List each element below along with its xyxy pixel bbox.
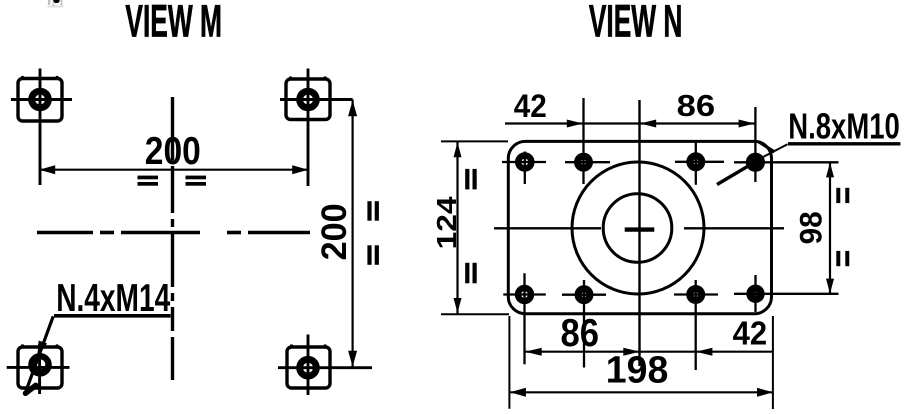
svg-text:98: 98 <box>793 211 829 244</box>
extension lines for 198 <box>509 316 773 409</box>
dimension line 42/86 top (VIEW N) <box>505 120 755 128</box>
dimension line 124 (VIEW N left) <box>454 142 462 314</box>
dimension line 200 vertical (VIEW M) <box>348 100 357 368</box>
vertical centerline VIEW N <box>638 100 640 366</box>
svg-text:86: 86 <box>677 89 716 123</box>
svg-text:42: 42 <box>733 316 768 353</box>
hole N5 bottom-left (corner, open center) <box>503 273 546 364</box>
dimension line 200 horizontal (VIEW M) <box>39 165 309 174</box>
center mark dash <box>625 227 655 231</box>
equality marks right of vertical 200 dim <box>367 201 379 265</box>
svg-text:124: 124 <box>431 196 462 249</box>
svg-text:VIEW N: VIEW N <box>589 0 683 46</box>
bolt pad M2 (top-right) with hole and crosshair <box>280 69 353 187</box>
hole N7 bottom with extension line down <box>674 280 718 370</box>
inner circle (bore) <box>603 194 672 263</box>
dimension line 86/42 bottom (VIEW N) <box>525 348 773 356</box>
horizontal centerline VIEW M (dash-dot) <box>37 231 310 235</box>
outer circle (boss) <box>572 162 704 294</box>
equality marks below 200 dim <box>138 176 207 186</box>
hole N2 top with extension line up <box>565 98 610 184</box>
svg-text:200: 200 <box>145 130 201 173</box>
hole N4 top-right with extension line up <box>734 107 839 182</box>
leader line N.4xM14 with arrow to hole M3 <box>25 316 170 394</box>
mounting plate outline (rounded rectangle) <box>508 141 771 313</box>
dimension line 98 (VIEW N right) <box>826 162 834 294</box>
cropped text artifact top-left <box>48 0 64 8</box>
hole N8 bottom-right <box>734 275 839 312</box>
equality marks right of 98 dim <box>836 188 849 266</box>
horizontal centerline VIEW N <box>494 227 784 229</box>
vertical centerline VIEW M (dash-dot) <box>171 97 174 380</box>
bolt pad M3 (bottom-left) with hole and crosshair <box>7 344 70 394</box>
hole N3 top <box>675 142 724 185</box>
hole N1 top-left (corner, open center) <box>502 152 546 185</box>
extension lines for 124 <box>441 141 509 314</box>
svg-text:VIEW M: VIEW M <box>125 0 221 46</box>
svg-text:N.4xM14: N.4xM14 <box>56 277 170 320</box>
svg-text:86: 86 <box>561 312 600 355</box>
equality marks left of plate <box>465 169 477 283</box>
svg-text:200: 200 <box>315 203 354 260</box>
dimension line 198 (VIEW N bottom) <box>510 388 774 397</box>
svg-text:198: 198 <box>606 349 669 391</box>
bolt pad M1 (top-left) with hole and crosshair <box>11 69 72 186</box>
bolt pad M4 (bottom-right) with hole and crosshair <box>278 335 372 396</box>
svg-text:N.8xM10: N.8xM10 <box>788 106 900 147</box>
leader line N.8xM10 with arrow to hole N4 <box>717 142 900 185</box>
hole N6 bottom with extension line down <box>562 280 606 368</box>
svg-text:42: 42 <box>514 88 547 124</box>
